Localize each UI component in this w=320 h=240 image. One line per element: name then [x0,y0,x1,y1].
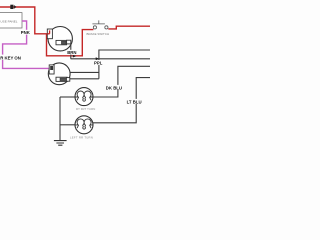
svg-text:R KEY ON: R KEY ON [0,55,21,60]
wire: brown line to right edge [71,58,150,60]
lamp L1 filament [75,91,93,101]
connector arrow at PPL junction [96,57,100,60]
lamp L2 filament [75,119,93,129]
label PPL [94,60,103,65]
wire: BRN drop from flasher U1 [70,44,72,59]
flasher U2 inner element [56,77,67,81]
wire: DK BLU circuit to lamp L1 [93,66,150,97]
ground symbol [54,141,67,146]
label PNK [21,30,31,35]
svg-text:DK BLU: DK BLU [106,85,122,90]
flasher U1 inner element [56,40,67,44]
lamp L2 (left rear turn) body [75,116,93,134]
label R KEY ON [0,55,23,60]
label DK BLU [105,85,125,90]
label BRN [67,50,78,55]
brake switch SW [92,20,108,29]
flasher U2 (turn flasher) body [48,63,70,85]
fuse panel box [0,13,22,28]
lamp L1 (right front turn) body [75,88,93,106]
connector arrow on brown line [73,55,77,58]
svg-text:LT BLU: LT BLU [127,99,142,104]
wire: flasher U2 upper output [70,71,99,73]
wire: red from brake switch to right edge [108,26,150,29]
svg-text:PPL: PPL [94,60,103,65]
wire: flasher U2 lower output [70,78,99,80]
svg-text:LEFT RR TURN: LEFT RR TURN [70,136,93,140]
wire: vertical bus at PPL junction [99,50,150,79]
svg-text:BRAKE SWITCH: BRAKE SWITCH [87,32,110,36]
wire: lamp L1 to ground bus [60,96,75,98]
wire: pink from fuse panel to turn flasher [3,21,51,68]
svg-text:PNK: PNK [21,30,31,35]
svg-text:USE PANEL: USE PANEL [0,19,17,23]
label LT BLU [126,99,143,104]
flasher U2 left terminal [49,65,54,74]
svg-text:RT FRT TURN: RT FRT TURN [76,107,95,111]
wire: red feed from fuse panel (top) [0,7,50,34]
inline connector on red feed [10,5,16,9]
wire: ground bus vertical [59,97,61,140]
flasher U1 red wire stub inside terminal [47,30,49,33]
flasher U1 (hazard flasher) body [48,27,72,51]
flasher U1 left terminal [47,29,52,39]
wire: lamp L2 to ground bus [60,124,75,126]
wire: red branch down under flasher to brake switch [47,30,94,56]
wire: LT BLU circuit to lamp L2 [93,78,150,123]
svg-text:BRN: BRN [67,50,76,55]
